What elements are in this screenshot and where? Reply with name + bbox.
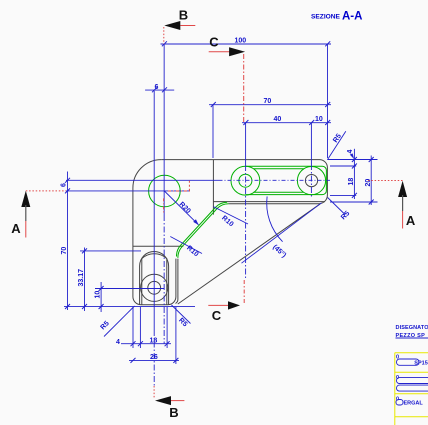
svg-text:C: C	[212, 308, 222, 323]
svg-text:70: 70	[264, 98, 272, 105]
svg-text:C: C	[209, 34, 219, 49]
svg-text:40: 40	[274, 116, 282, 123]
svg-text:SP150: SP150	[414, 360, 428, 366]
svg-text:B: B	[179, 7, 188, 22]
svg-text:SEZIONE: SEZIONE	[311, 14, 341, 21]
svg-text:A: A	[406, 213, 416, 228]
svg-text:A-A: A-A	[342, 11, 362, 23]
svg-text:70: 70	[61, 247, 68, 255]
svg-text:A: A	[11, 221, 21, 236]
svg-text:18: 18	[348, 178, 355, 186]
svg-text:B: B	[169, 405, 178, 420]
svg-text:6: 6	[61, 183, 68, 187]
svg-text:4: 4	[347, 150, 354, 154]
svg-text:33.17: 33.17	[78, 269, 85, 287]
svg-text:100: 100	[235, 38, 247, 45]
svg-text:18: 18	[150, 337, 158, 344]
svg-text:10: 10	[95, 291, 102, 299]
svg-text:10: 10	[315, 116, 323, 123]
svg-text:ERGAL: ERGAL	[404, 401, 424, 407]
svg-text:DISEGNATO: DISEGNATO	[396, 325, 428, 331]
svg-text:20: 20	[365, 179, 372, 187]
svg-text:4: 4	[116, 339, 120, 346]
svg-text:26: 26	[150, 354, 158, 361]
